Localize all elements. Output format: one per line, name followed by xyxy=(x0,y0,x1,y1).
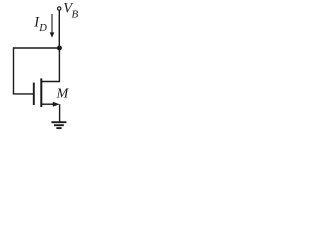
drain lead xyxy=(41,48,59,82)
svg-text:B: B xyxy=(72,8,79,20)
wire left vertical xyxy=(13,47,15,94)
wire source to ground xyxy=(59,104,61,121)
label ID xyxy=(33,15,47,34)
svg-text:D: D xyxy=(38,23,47,34)
transistor M gate bar xyxy=(33,83,35,105)
label VB xyxy=(63,1,78,21)
current arrow ID xyxy=(50,14,55,38)
transistor M channel bar xyxy=(40,78,42,107)
wire junction to left xyxy=(14,47,60,49)
terminal VB circle xyxy=(58,7,61,10)
svg-text:M: M xyxy=(56,87,70,102)
wire VB to junction xyxy=(58,10,60,48)
node junction dot xyxy=(57,46,62,51)
source lead with arrow xyxy=(41,102,59,107)
wire to gate xyxy=(13,93,34,95)
ground xyxy=(51,122,66,128)
